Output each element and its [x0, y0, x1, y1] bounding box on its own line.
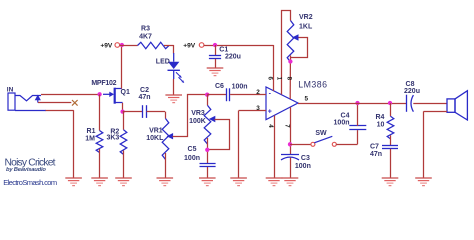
wire VR2 bottom: [290, 56, 292, 63]
svg-text:R1: R1: [87, 128, 96, 135]
ground pin4: [266, 177, 283, 179]
switch SW: [311, 142, 315, 146]
node C4 junction: [355, 101, 359, 105]
ground jack sleeve: [65, 177, 82, 179]
ground C1: [207, 67, 224, 69]
resistor R3: [138, 42, 169, 48]
resistor R2: [120, 130, 127, 155]
wire R1 top: [99, 94, 101, 130]
svg-text:5: 5: [305, 96, 309, 103]
resistor R4: [387, 116, 394, 139]
ground VR1: [157, 177, 174, 179]
svg-text:8: 8: [285, 77, 292, 81]
svg-text:220u: 220u: [404, 88, 420, 95]
node gate junction: [97, 92, 101, 96]
svg-text:Q1: Q1: [121, 89, 130, 96]
svg-text:4K7: 4K7: [139, 33, 152, 40]
capacitor C1: [215, 45, 217, 55]
no-connect X mark: [72, 100, 78, 106]
pin 1 wire: [282, 11, 291, 95]
input jack J1: [8, 93, 15, 110]
svg-text:1KL: 1KL: [299, 23, 313, 30]
wire VR3 wiper loop: [208, 120, 230, 150]
ground C5: [199, 177, 216, 179]
node VR3 bottom junction: [205, 148, 209, 152]
svg-text:R4: R4: [375, 114, 384, 121]
ground R1: [91, 177, 108, 179]
svg-text:C7: C7: [370, 143, 379, 150]
svg-text:by Beavisaudio: by Beavisaudio: [6, 167, 46, 173]
wire VR1 bottom: [165, 153, 167, 178]
led emission arrows: [176, 72, 180, 76]
pin 7 wire: [290, 107, 292, 154]
pin 2 wire segment: [230, 94, 266, 96]
wire R1 bottom: [99, 149, 101, 178]
svg-text:100K: 100K: [189, 118, 206, 125]
pin 6 wire: [273, 45, 275, 91]
svg-text:+9V: +9V: [100, 42, 113, 49]
svg-text:7: 7: [283, 124, 290, 128]
svg-text:C3: C3: [301, 155, 310, 162]
svg-text:C5: C5: [188, 146, 197, 153]
wire node to C6: [207, 94, 226, 96]
potentiometer VR3: [204, 105, 211, 144]
svg-text:LED: LED: [156, 59, 170, 66]
node source junction: [120, 109, 124, 113]
wire pin7 to switch: [290, 144, 311, 146]
wire switch to C4: [336, 144, 357, 146]
svg-text:+: +: [268, 108, 272, 115]
svg-text:R3: R3: [141, 25, 150, 32]
svg-text:IN: IN: [7, 87, 14, 94]
svg-text:220u: 220u: [225, 54, 241, 61]
svg-text:100n: 100n: [295, 163, 311, 170]
svg-text:VR3: VR3: [191, 110, 205, 117]
node VR2 pin8 junction: [288, 59, 292, 63]
svg-text:47n: 47n: [138, 94, 150, 101]
wire LED cathode: [173, 79, 175, 96]
wire VR1 wiper: [173, 95, 208, 137]
wire C8 to speaker: [413, 103, 447, 105]
wire +9V rail to pin6: [204, 45, 274, 47]
ground C3: [282, 177, 299, 179]
capacitor C3: [281, 154, 299, 156]
wire R2 bottom: [123, 151, 125, 179]
svg-text:1M: 1M: [85, 135, 95, 142]
wire R2 top: [123, 112, 125, 130]
pin 4 wire: [274, 116, 276, 179]
node tone junction: [205, 93, 209, 97]
svg-text:2: 2: [256, 89, 260, 96]
op-amp U1 LM386: [266, 87, 298, 120]
wire VR2 wiper loop: [291, 38, 308, 58]
wire ring stub: [38, 102, 71, 104]
svg-text:47n: 47n: [370, 151, 382, 158]
svg-text:LM386: LM386: [298, 80, 327, 90]
wire VR3 top: [207, 95, 209, 106]
svg-text:4: 4: [267, 124, 274, 128]
svg-text:100n: 100n: [184, 155, 200, 162]
speaker SPK: [447, 99, 455, 112]
wire R4 top: [390, 103, 392, 116]
wire Q1 drain to +9V: [121, 44, 123, 88]
wire +9V to R3: [120, 45, 138, 47]
svg-text:SW: SW: [315, 130, 327, 137]
svg-text:6: 6: [267, 77, 274, 81]
svg-text:3: 3: [256, 105, 260, 112]
ground LED: [165, 94, 182, 96]
wire input tip to gate node: [41, 94, 100, 96]
node C1 junction: [213, 43, 217, 47]
led LED: [173, 53, 175, 62]
svg-text:1: 1: [275, 77, 282, 81]
wire Q1 source: [122, 103, 124, 112]
resistor R1: [96, 131, 103, 153]
wire R4 to C7: [390, 135, 392, 145]
capacitor C8: [406, 95, 408, 112]
capacitor C7: [382, 145, 398, 147]
potentiometer VR2: [287, 21, 294, 63]
wire jack sleeve: [15, 110, 46, 112]
pin 8 wire: [289, 62, 291, 100]
svg-text:VR2: VR2: [299, 14, 313, 21]
capacitor C4: [349, 125, 366, 127]
wire C2 to VR1: [147, 111, 166, 113]
svg-text:C6: C6: [215, 83, 224, 90]
wire speaker return: [424, 111, 448, 113]
wire VR3 bottom: [207, 138, 209, 163]
svg-text:100n: 100n: [334, 119, 350, 126]
svg-text:+9V: +9V: [183, 42, 196, 49]
pin 3 wire: [239, 110, 266, 112]
ground C7: [382, 177, 399, 179]
svg-text:ElectroSmash.com: ElectroSmash.com: [3, 178, 57, 187]
ground speaker: [415, 177, 432, 179]
capacitor C2: [123, 111, 143, 113]
transistor Q1 MPF102: [103, 93, 110, 95]
node drain junction: [120, 43, 124, 47]
node R4 junction: [388, 101, 392, 105]
svg-text:10: 10: [377, 122, 385, 129]
svg-text:10KL: 10KL: [146, 135, 164, 142]
svg-text:100n: 100n: [232, 83, 248, 90]
potentiometer VR1: [162, 119, 169, 160]
ground pin3: [230, 177, 247, 179]
svg-text:MPF102: MPF102: [91, 80, 116, 87]
node pin7 junction: [288, 142, 292, 146]
ground R2: [115, 177, 132, 179]
svg-text:VR1: VR1: [149, 128, 163, 135]
capacitor C6: [226, 88, 228, 101]
wire output: [298, 103, 406, 105]
wire R3 to LED: [164, 45, 174, 47]
capacitor C5: [200, 163, 216, 165]
svg-text:3K3: 3K3: [106, 134, 119, 141]
